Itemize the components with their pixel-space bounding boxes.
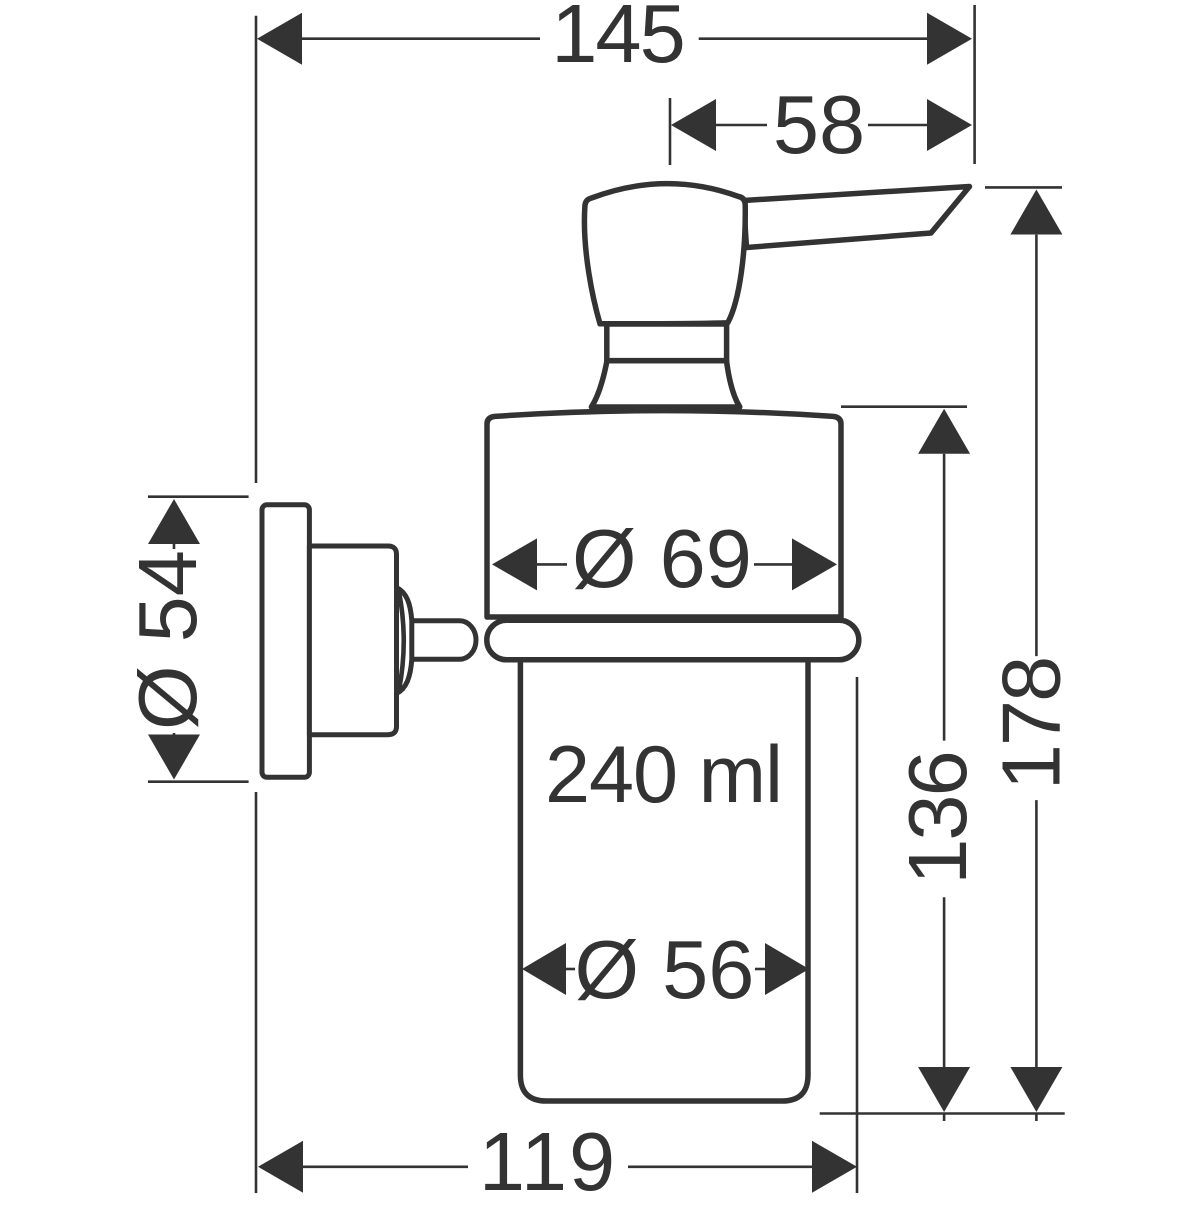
pump spout bbox=[744, 187, 970, 248]
dim 119 extension left bbox=[255, 792, 258, 1193]
dim 58 arrow left bbox=[671, 99, 716, 151]
dim 54 extension bottom bbox=[148, 780, 249, 783]
dim 178 arrow down bbox=[1010, 1067, 1062, 1112]
bell lens line bbox=[399, 592, 404, 690]
holder flange bbox=[487, 620, 859, 660]
dim 145 arrow right bbox=[927, 13, 972, 65]
dim 136 arrow down bbox=[918, 1067, 970, 1112]
dim 58 extension left bbox=[669, 98, 672, 165]
dim 145 arrow left bbox=[257, 13, 302, 65]
dim 145 line bbox=[300, 37, 540, 40]
svg-text:136: 136 bbox=[891, 752, 984, 884]
svg-text:Ø 69: Ø 69 bbox=[572, 512, 752, 605]
dim 119 extension right bbox=[856, 677, 859, 1193]
dim 145 extension left bbox=[255, 16, 258, 483]
dim 56 arrow left bbox=[522, 943, 566, 995]
svg-text:178: 178 bbox=[985, 658, 1078, 790]
wall plate bbox=[262, 505, 309, 778]
dim 178 arrow up bbox=[1010, 190, 1062, 235]
dim 69 arrow right bbox=[792, 538, 837, 590]
bottom reference line bbox=[820, 1112, 1065, 1115]
svg-text:58: 58 bbox=[773, 78, 865, 171]
dim 178 extension top bbox=[985, 186, 1062, 189]
dim 54 arrow down bbox=[148, 735, 200, 780]
dim 56 line bbox=[560, 968, 575, 971]
dim 69 line bbox=[535, 563, 567, 566]
dim 119 arrow right bbox=[812, 1141, 857, 1193]
pivot shaft bbox=[405, 621, 476, 660]
bottle bbox=[520, 655, 808, 1101]
dim 119 line bbox=[303, 1166, 468, 1169]
dim 58 arrow right bbox=[927, 99, 972, 151]
holder body bbox=[487, 411, 841, 617]
svg-text:Ø 56: Ø 56 bbox=[575, 923, 755, 1016]
dim 54 line bbox=[173, 543, 176, 549]
dim 136 arrow up bbox=[918, 409, 970, 454]
dim 178 line bbox=[1035, 235, 1038, 656]
pump knob bbox=[584, 184, 745, 324]
neck flare bbox=[591, 361, 739, 407]
wall bracket bbox=[309, 546, 396, 735]
svg-text:119: 119 bbox=[479, 1115, 617, 1200]
dim 119 arrow left bbox=[258, 1141, 303, 1193]
pivot bell bbox=[397, 588, 412, 694]
dim 145/58 extension right bbox=[973, 5, 976, 164]
dim 54 extension top bbox=[148, 495, 249, 498]
svg-text:145: 145 bbox=[551, 0, 683, 80]
dim 56 arrow right bbox=[765, 943, 809, 995]
dim 69 arrow left bbox=[492, 538, 537, 590]
svg-text:240 ml: 240 ml bbox=[545, 730, 782, 820]
pump neck bbox=[607, 324, 727, 361]
dim 136 line bbox=[943, 454, 946, 741]
dim 58 line bbox=[716, 124, 767, 127]
dim 54 arrow up bbox=[148, 499, 200, 544]
svg-text:Ø 54: Ø 54 bbox=[121, 550, 214, 730]
dim 136 extension top bbox=[841, 405, 967, 408]
